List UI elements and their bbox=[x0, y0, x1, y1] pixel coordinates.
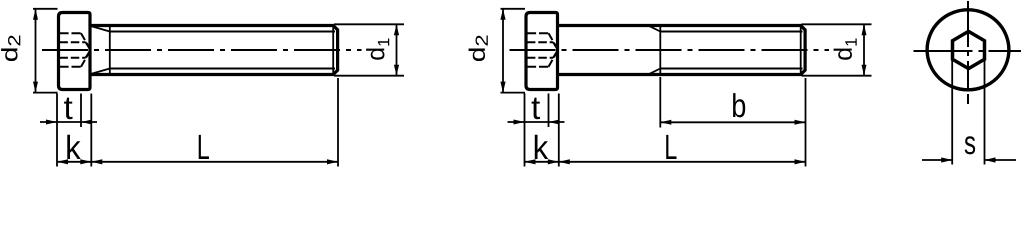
screw 2 shank outline bbox=[559, 26, 805, 75]
screw 1 dimension k line with arrows bbox=[57, 159, 91, 164]
screw 2 dimension d2 extension lines bbox=[501, 9, 526, 93]
screw 2 length extension line bbox=[805, 78, 807, 167]
screw 1 dimension d1 line with arrows bbox=[394, 24, 399, 75]
screw 1 thread minor diameter lines bbox=[110, 32, 335, 69]
label s bbox=[965, 136, 975, 154]
screw 1 label d2 bbox=[1, 48, 17, 61]
screw 2 dimension d1 line with arrows bbox=[862, 24, 867, 75]
screw 2 centerline bbox=[510, 49, 830, 51]
screw 2 head outline bbox=[526, 13, 558, 90]
end view hex socket bbox=[953, 31, 985, 68]
screw 2 label d1 bbox=[834, 49, 852, 60]
screw 1 label L bbox=[199, 135, 209, 159]
screw 1 dimension d2 extension lines bbox=[33, 9, 58, 93]
screw 2 thread length extension line bbox=[659, 77, 661, 128]
screw 1 head left extension line bbox=[56, 94, 58, 167]
screw 2 label k bbox=[535, 135, 548, 159]
screw 1 thread runout diagonals bbox=[92, 26, 110, 73]
dimension s extension lines bbox=[952, 60, 984, 165]
screw 1 shank outline bbox=[92, 26, 338, 75]
screw 1 thread start line bbox=[109, 27, 111, 73]
screw 2 thread runout diagonals bbox=[650, 26, 661, 73]
screw 1 end chamfer line bbox=[332, 27, 334, 73]
dimension s line with arrows bbox=[922, 157, 1016, 162]
screw 2 socket depth extension line bbox=[548, 94, 550, 128]
screw 1 head outline bbox=[59, 13, 91, 90]
screw 1 hex socket hidden lines bbox=[59, 33, 85, 67]
screw 2 thread minor diameter lines bbox=[660, 32, 802, 69]
screw 2 dimension L line with arrows bbox=[559, 159, 806, 164]
end view vertical centerline bbox=[967, 1, 969, 104]
screw 2 label L bbox=[666, 135, 676, 159]
screw 1 dimension d1 extension lines bbox=[334, 24, 404, 75]
screw 1 centerline bbox=[42, 49, 362, 51]
screw 2 dimension d1 extension lines bbox=[802, 24, 872, 75]
screw 1 label t bbox=[64, 98, 72, 120]
screw 1 socket cone hidden lines bbox=[81, 33, 91, 67]
screw 1 dimension t line with arrows bbox=[40, 120, 97, 125]
screw 1 socket depth extension line bbox=[80, 94, 82, 128]
screw 1 head right extension line bbox=[90, 94, 92, 167]
screw 2 head right extension line bbox=[558, 94, 560, 167]
screw 2 label d2 bbox=[469, 48, 485, 61]
screw 2 dimension d2 line with arrows bbox=[500, 9, 505, 93]
screw 2 dimension k line with arrows bbox=[525, 159, 559, 164]
screw 2 dimension b line with arrows bbox=[660, 120, 805, 125]
screw 1 dimension d2 line with arrows bbox=[33, 9, 38, 93]
screw 2 dimension t line with arrows bbox=[508, 120, 565, 125]
screw 2 label t bbox=[532, 98, 540, 120]
screw 1 length extension line bbox=[337, 78, 339, 167]
screw 1 label k bbox=[67, 135, 80, 159]
screw 2 label b bbox=[733, 93, 745, 117]
screw 2 end chamfer line bbox=[800, 27, 802, 73]
end view head circle bbox=[927, 10, 1009, 90]
screw 1 dimension L line with arrows bbox=[91, 159, 338, 164]
screw 1 label d1 bbox=[366, 49, 384, 60]
screw 2 socket cone hidden lines bbox=[549, 33, 559, 67]
end view horizontal centerline bbox=[914, 50, 1022, 52]
screw 2 thread start line bbox=[659, 27, 661, 73]
screw 2 hex socket hidden lines bbox=[527, 33, 553, 67]
screw 2 head left extension line bbox=[524, 94, 526, 167]
